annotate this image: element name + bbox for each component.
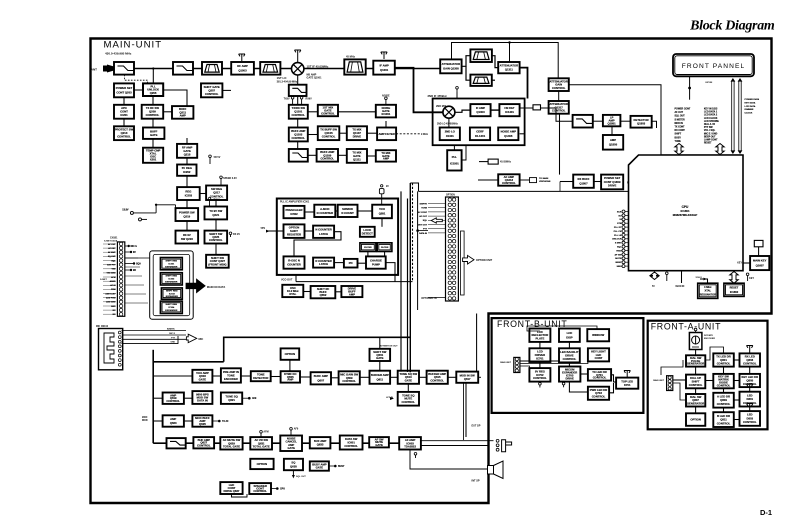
block BUFF F <box>376 150 396 161</box>
wire lw2 <box>462 145 466 160</box>
block BOT95 AF AMP <box>399 437 421 449</box>
svg-text:ATTENUATOR: ATTENUATOR <box>500 64 519 68</box>
svg-text:SO: SO <box>618 215 621 217</box>
svg-text:CONTROL: CONTROL <box>205 92 219 96</box>
block R latch <box>313 258 334 268</box>
svg-text:SW REG: SW REG <box>211 187 222 191</box>
wire mic w1 <box>122 330 187 332</box>
wire aud w18 <box>360 376 370 378</box>
wire pll w8 <box>358 262 367 264</box>
block MOD SW <box>205 231 228 244</box>
svg-text:VCO OUT: VCO OUT <box>281 278 293 281</box>
wire lc w3 <box>134 89 143 91</box>
svg-text:GATE: GATE <box>376 356 384 360</box>
block VOX AMP <box>192 370 212 383</box>
svg-text:CONTROL: CONTROL <box>533 376 547 380</box>
wire mid w6 <box>308 134 318 136</box>
wire aud w24 <box>289 360 291 371</box>
svg-text:AMP: AMP <box>170 417 176 421</box>
block ROW78 <box>398 371 419 384</box>
svg-text:ROTARY: ROTARY <box>704 334 714 337</box>
block FB TX LED <box>588 369 611 381</box>
svg-text:CONTROL: CONTROL <box>563 357 577 361</box>
block FB LCD <box>559 329 580 342</box>
svg-text:IC104: IC104 <box>168 306 175 309</box>
svg-text:MUTE: MUTE <box>404 397 412 401</box>
block POWER SET <box>114 83 134 97</box>
svg-text:DIAL UP: DIAL UP <box>690 376 701 380</box>
svg-text:AGND: AGND <box>110 280 116 283</box>
svg-text:PUMP: PUMP <box>372 263 380 267</box>
svg-text:9V: 9V <box>386 186 389 188</box>
svg-text:EXPANDER: EXPANDER <box>166 295 178 298</box>
svg-text:Q1107: Q1107 <box>353 131 362 135</box>
svg-text:1ST IF 45.05MHz: 1ST IF 45.05MHz <box>307 65 330 69</box>
svg-text:D801: D801 <box>747 397 754 401</box>
wire long line 191 <box>419 190 629 192</box>
svg-text:MIC CN102: MIC CN102 <box>96 326 109 328</box>
block FA m3 <box>713 393 734 408</box>
wire vbus 4176 <box>417 191 419 310</box>
CPU IC1601 <box>629 155 744 271</box>
wire fb w4 <box>568 362 570 366</box>
block ATTEN SW <box>370 349 391 361</box>
svg-text:IC601: IC601 <box>348 441 356 445</box>
wire vbus top bend <box>410 183 418 191</box>
block BPF1 <box>260 62 280 75</box>
wire mid w2 <box>297 96 299 105</box>
wire fb w8 <box>609 383 613 393</box>
svg-text:MIC E: MIC E <box>169 333 175 335</box>
wire mid w7 <box>339 132 347 134</box>
svg-text:RX9V: RX9V <box>305 98 312 101</box>
svg-text:TX AF: TX AF <box>222 420 229 423</box>
svg-text:5V REG: 5V REG <box>535 369 545 373</box>
block ROW77 <box>370 371 391 384</box>
svg-text:GATE: GATE <box>150 133 158 137</box>
wire fil2 wire <box>479 161 488 163</box>
svg-text:X1601: X1601 <box>696 277 703 279</box>
svg-text:CLOCK: CLOCK <box>745 113 753 115</box>
svg-text:DATA SW: DATA SW <box>345 437 358 441</box>
svg-text:VOL / SQL: VOL / SQL <box>704 130 716 132</box>
block FA m4 <box>713 412 734 427</box>
svg-text:Q552: Q552 <box>320 293 327 297</box>
wire bpf pair left2 <box>466 66 470 80</box>
strip arrow2 <box>125 251 136 254</box>
block AMP B1 <box>163 393 184 404</box>
block BPF 45MHz <box>344 59 365 74</box>
svg-text:GATE: GATE <box>287 446 295 450</box>
svg-text:MOD IN: MOD IN <box>675 123 684 125</box>
svg-text:CONTROL: CONTROL <box>166 399 180 403</box>
svg-text:Q611: Q611 <box>377 377 384 381</box>
svg-text:13.8V: 13.8V <box>122 209 129 212</box>
wire tcxo link <box>303 291 310 293</box>
block BUFF E <box>347 149 367 163</box>
wire long 68 to mid <box>222 89 231 91</box>
svg-text:CONTROL: CONTROL <box>401 400 415 404</box>
I/O data fat arrow <box>186 279 205 292</box>
svg-text:2ND IF 455kHz: 2ND IF 455kHz <box>428 94 448 98</box>
svg-text:Q1101: Q1101 <box>294 110 303 114</box>
wire audio bus up <box>224 337 410 362</box>
block AF AMP opt <box>498 174 519 185</box>
svg-text:AF OUT: AF OUT <box>419 215 427 218</box>
svg-text:BUSY: BUSY <box>675 137 682 139</box>
wire mid w11 <box>338 154 347 156</box>
block 2ND LO <box>440 128 460 141</box>
power stem key stem <box>746 273 754 281</box>
block LPF mid <box>289 85 307 96</box>
svg-text:ATTENTION OUT: ATTENTION OUT <box>380 345 398 348</box>
svg-text:SQ9: SQ9 <box>136 264 141 266</box>
wire sq stem <box>292 470 294 475</box>
svg-text:EXPANDER: EXPANDER <box>165 309 177 312</box>
block ROW82 <box>192 391 212 404</box>
block charge pump <box>366 256 386 268</box>
wire opt v476 <box>476 314 478 372</box>
wire pll w2 <box>335 210 337 212</box>
svg-text:BUFFER AMP: BUFFER AMP <box>371 373 389 377</box>
svg-text:RX CONT: RX CONT <box>675 130 686 132</box>
wire mute-sql <box>611 126 613 135</box>
wire cpu stem2 <box>681 271 683 283</box>
wire lc w10 <box>163 90 187 106</box>
svg-text:COUNTER: COUNTER <box>287 263 301 267</box>
svg-text:SQL: SQL <box>423 220 428 222</box>
svg-text:OPTION: OPTION <box>446 195 455 197</box>
svg-text:TX MIX: TX MIX <box>352 128 361 132</box>
wire reso wire <box>700 279 708 283</box>
signal list left <box>675 109 691 143</box>
block BPF down <box>470 75 491 86</box>
wire pll w5 <box>305 230 314 232</box>
svg-text:REGISTER: REGISTER <box>287 233 301 237</box>
svg-text:IC1602: IC1602 <box>730 290 739 294</box>
wire lc w5 <box>152 119 154 128</box>
svg-text:Q213: Q213 <box>121 131 128 135</box>
strip arrow1 <box>125 245 138 248</box>
junction att top <box>508 41 510 43</box>
svg-text:IC1401: IC1401 <box>505 110 514 114</box>
wire vco stem <box>295 275 297 282</box>
wire fa w12 <box>723 408 725 413</box>
block PLL UNLOCK <box>143 83 163 96</box>
svg-text:8V CONT: 8V CONT <box>418 212 428 214</box>
block IO exp 2 <box>160 273 182 285</box>
option right arrow <box>463 255 474 264</box>
block BUFF GATE <box>143 128 164 139</box>
wire lc w18 <box>215 219 217 230</box>
FRONT-A-UNIT frame <box>648 321 768 430</box>
antenna symbol FA stem4 <box>747 404 753 411</box>
block A counter <box>314 205 335 217</box>
svg-text:PD: PD <box>349 261 353 265</box>
svg-text:BUF AMP: BUF AMP <box>314 439 327 443</box>
block PWR SW <box>601 175 623 190</box>
wire lc w14 <box>186 200 188 208</box>
svg-text:SW Q223: SW Q223 <box>181 237 193 241</box>
svg-text:IC701: IC701 <box>536 357 544 361</box>
svg-text:GATE: GATE <box>405 379 413 383</box>
svg-text:Q1105: Q1105 <box>325 131 334 135</box>
strip arrow3 <box>125 262 142 265</box>
wire fb bus3 <box>520 366 530 368</box>
wire buf link <box>335 291 341 293</box>
wire afamp down to sp <box>410 450 488 470</box>
wire mixer1 stem <box>297 57 299 62</box>
svg-text:POWER SW: POWER SW <box>179 210 195 214</box>
svg-text:BEEP OUT: BEEP OUT <box>704 136 716 138</box>
svg-text:N COUNT: N COUNT <box>341 211 354 215</box>
wire mid w10 <box>308 154 317 156</box>
svg-text:XTAL: XTAL <box>705 289 712 293</box>
svg-text:SWMOD: SWMOD <box>342 207 353 211</box>
wire fp stem <box>689 76 691 99</box>
block IO exp 1 <box>160 258 182 270</box>
block BUFF C <box>347 126 367 140</box>
wire aud w4 <box>184 420 193 422</box>
svg-text:N COUNTER: N COUNTER <box>317 211 333 215</box>
svg-text:OPTION: OPTION <box>690 418 701 422</box>
svg-text:M38267M8-XXXGP: M38267M8-XXXGP <box>673 213 698 217</box>
svg-text:Q625: Q625 <box>199 422 206 426</box>
svg-text:9R: 9R <box>133 270 136 272</box>
hollow arrow reset arrow <box>730 272 738 284</box>
block counter latch <box>313 226 334 238</box>
svg-text:RX 9V: RX 9V <box>233 233 240 236</box>
svg-text:CONTROL: CONTROL <box>717 383 731 387</box>
svg-text:AMP: AMP <box>383 157 389 161</box>
svg-text:IC502: IC502 <box>290 212 298 216</box>
wire pll w10 <box>367 252 369 257</box>
svg-text:EXPANDER: EXPANDER <box>165 266 177 269</box>
svg-text:Q1111: Q1111 <box>353 157 361 161</box>
wire lpf3-mute <box>593 120 603 122</box>
wire mid w3 <box>308 111 318 113</box>
svg-text:Q1403: Q1403 <box>476 110 485 114</box>
block BUFF A <box>289 128 308 142</box>
block FA l3 <box>686 394 705 407</box>
block OPTION B <box>250 459 273 469</box>
antenna connector ANT <box>91 65 114 73</box>
wire aud w25 <box>153 375 192 377</box>
wire lc w1 <box>123 97 125 105</box>
block BUFF D <box>317 149 338 162</box>
svg-text:LED: LED <box>747 413 753 417</box>
block SQL C <box>310 461 329 470</box>
svg-text:EXT SP: EXT SP <box>472 425 481 428</box>
svg-text:PRE AMP IN: PRE AMP IN <box>223 370 239 374</box>
varactor above VCO <box>379 185 389 205</box>
svg-text:Q1311: Q1311 <box>505 68 514 72</box>
svg-text:S METER: S METER <box>675 119 686 121</box>
svg-text:GAIN Q1305: GAIN Q1305 <box>443 67 459 71</box>
wire fa w3 <box>695 388 697 394</box>
svg-text:CONTROL: CONTROL <box>253 489 267 493</box>
block FA l2 <box>686 375 705 389</box>
block ATT GAIN CTRL <box>549 78 569 91</box>
wire fa vline <box>661 360 683 375</box>
svg-text:45.05MHz: 45.05MHz <box>500 161 512 164</box>
svg-text:AF9: AF9 <box>252 397 257 400</box>
wire mid w12 <box>367 155 376 157</box>
svg-text:Q221: Q221 <box>212 213 219 217</box>
svg-text:ADD PSW: ADD PSW <box>106 297 116 300</box>
bus note list <box>745 98 760 115</box>
power stem cpu stem1 <box>666 272 669 281</box>
power stem fa enc stem <box>694 328 697 332</box>
svg-text:CONTROL: CONTROL <box>593 376 607 380</box>
block FA r3 <box>740 392 761 407</box>
af amp conn <box>530 177 551 183</box>
svg-text:Q217: Q217 <box>213 191 220 195</box>
svg-text:VCO: VCO <box>379 207 386 211</box>
wire fa w4 <box>695 407 697 414</box>
antenna symbol FA stem3 <box>747 384 753 391</box>
svg-text:4 MHz: 4 MHz <box>704 285 712 289</box>
block ATT L <box>440 59 461 73</box>
svg-text:Q1103: Q1103 <box>294 132 303 136</box>
block LPF1 <box>114 62 134 75</box>
svg-text:DRIVE: DRIVE <box>565 353 574 357</box>
svg-text:INT SP: INT SP <box>472 480 480 483</box>
option strip labels <box>418 203 446 234</box>
block vco buf <box>341 286 362 297</box>
svg-text:MAIN-UNIT: MAIN-UNIT <box>104 40 163 51</box>
wire mainkey left <box>743 262 750 264</box>
svg-text:FILTER: FILTER <box>381 247 389 249</box>
svg-text:PLL LE: PLL LE <box>614 235 622 237</box>
svg-text:R-OSC N: R-OSC N <box>288 259 300 263</box>
wire rf chain main <box>114 68 440 70</box>
svg-text:GATE: GATE <box>183 149 191 153</box>
svg-text:MIC E / GND: MIC E / GND <box>704 133 718 135</box>
svg-text:Q1807: Q1807 <box>579 181 588 185</box>
svg-text:TDA2822: TDA2822 <box>404 444 416 448</box>
block ROW76 <box>339 371 360 384</box>
svg-text:MAIN KEY: MAIN KEY <box>753 259 767 263</box>
block AMP FIL <box>377 128 396 141</box>
svg-text:MUTE: MUTE <box>615 258 622 260</box>
svg-text:SQL: SQL <box>617 247 622 249</box>
svg-text:D701: D701 <box>624 383 631 387</box>
svg-text:LCD STROBE: LCD STROBE <box>704 121 719 123</box>
svg-text:BUFF: BUFF <box>150 129 158 133</box>
svg-text:Q1805: Q1805 <box>609 143 618 147</box>
wire bpf pair right <box>492 56 498 68</box>
power stem stem reg <box>220 176 238 185</box>
wire pll input <box>268 230 284 232</box>
wire fa w8 <box>734 399 740 401</box>
svg-text:ANT: ANT <box>91 68 97 72</box>
svg-text:POWER DATA: POWER DATA <box>745 98 760 101</box>
wire mid w13 <box>385 121 387 128</box>
connector J1 strip <box>117 242 124 316</box>
svg-text:B LED DR: B LED DR <box>717 414 730 418</box>
mixer 2nd MIX <box>443 106 455 118</box>
strip labels <box>103 243 116 316</box>
power stem stem 5V <box>209 155 221 164</box>
svg-text:MAIN UNIT: MAIN UNIT <box>653 379 664 382</box>
svg-text:BEEP: BEEP <box>616 262 622 264</box>
svg-text:DATA IN: DATA IN <box>419 232 428 235</box>
svg-text:TX9V: TX9V <box>214 199 220 202</box>
svg-text:FRONT PANNEL: FRONT PANNEL <box>682 63 746 70</box>
svg-text:CONT: CONT <box>595 356 603 360</box>
block ROW83 <box>221 393 242 404</box>
svg-text:Q219: Q219 <box>183 215 190 219</box>
svg-text:SHIFT: SHIFT <box>675 134 682 136</box>
svg-text:9600: 9600 <box>617 266 623 268</box>
wire rssi link <box>594 181 601 183</box>
block SQL AMP <box>603 135 623 150</box>
svg-text:DRIVE: DRIVE <box>565 377 574 381</box>
block BOT91 noise <box>280 436 302 452</box>
svg-text:CONTROL: CONTROL <box>197 444 211 448</box>
wire pll w1 <box>305 211 315 213</box>
svg-text:LCD DATA 1: LCD DATA 1 <box>704 111 718 114</box>
svg-text:ENCODER: ENCODER <box>224 377 238 381</box>
sq arrow <box>292 475 295 478</box>
2nd IF section box <box>433 99 525 146</box>
wire aud w29 <box>421 440 494 442</box>
svg-text:RSSI: RSSI <box>616 250 621 252</box>
block FA vol sw <box>686 355 705 366</box>
svg-text:S-MET DATA: S-MET DATA <box>104 240 118 243</box>
svg-text:Q607: Q607 <box>317 378 324 382</box>
svg-text:ENCODER: ENCODER <box>704 338 715 340</box>
svg-text:KEYIN: KEYIN <box>706 82 713 84</box>
block LPF mid2 <box>289 149 308 162</box>
wire aud w28 <box>463 383 465 440</box>
svg-text:CPU: CPU <box>280 489 285 491</box>
block FA tx led <box>713 353 734 366</box>
block REG <box>177 187 200 200</box>
svg-text:AMP: AMP <box>610 138 616 142</box>
block resonator X1601 <box>698 283 718 298</box>
svg-text:TONE: TONE <box>421 208 427 210</box>
row83 arrow <box>242 397 257 400</box>
svg-text:CONTROL: CONTROL <box>743 420 757 424</box>
svg-text:Block Diagram: Block Diagram <box>689 19 775 34</box>
svg-text:X201: X201 <box>150 158 157 162</box>
svg-text:DET OUT: DET OUT <box>418 224 428 226</box>
svg-text:TX CONT: TX CONT <box>675 127 686 129</box>
svg-text:Q633: Q633 <box>317 443 324 447</box>
power stem stem bot91 <box>290 428 299 436</box>
svg-text:RF AMP: RF AMP <box>237 64 248 68</box>
svg-text:CONTROL: CONTROL <box>146 113 160 117</box>
svg-text:CONTROL: CONTROL <box>344 444 358 448</box>
wire pll w7 <box>334 262 344 264</box>
wire beep link <box>232 494 248 497</box>
wire 2ndlo up <box>448 118 450 127</box>
block BOT89 <box>220 437 242 449</box>
svg-text:TOP LED: TOP LED <box>621 379 633 383</box>
option left arrow <box>431 218 442 223</box>
svg-text:MIC: MIC <box>199 337 204 341</box>
svg-text:MAIN IN: MAIN IN <box>676 285 685 288</box>
svg-text:Q1405: Q1405 <box>504 134 513 138</box>
svg-text:CONTROL: CONTROL <box>689 383 703 387</box>
svg-text:8(M)MIC: 8(M)MIC <box>167 329 176 331</box>
svg-text:LCD CLOCK: LCD CLOCK <box>704 118 718 120</box>
block IO exp 4 <box>160 301 182 313</box>
I/O group inner <box>153 254 190 315</box>
signal list right <box>704 109 719 145</box>
